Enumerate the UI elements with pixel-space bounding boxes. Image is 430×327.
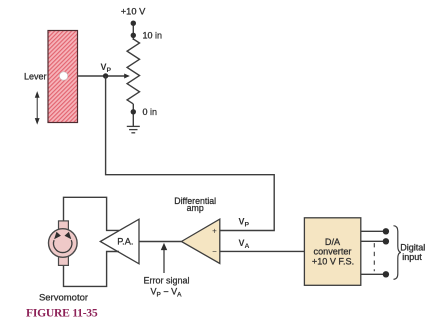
lever (hatched bar) [48,31,78,123]
svg-text:+10 V: +10 V [121,6,146,16]
wire digital input bit n [361,273,386,275]
amplifier P.A. [100,219,139,264]
svg-text:Servomotor: Servomotor [39,293,88,304]
svg-text:Lever: Lever [24,71,47,81]
svg-text:0 in: 0 in [143,107,158,117]
svg-text:VP: VP [101,62,112,74]
rotation arrowhead right [65,232,72,240]
svg-text:+10 V F.S.: +10 V F.S. [312,256,354,266]
wire digital input bit 1 [361,230,386,232]
svg-text:VA: VA [239,238,250,250]
rotation arrowhead left [54,232,61,240]
servomotor rotation arc [54,240,72,252]
potentiometer resistor body [127,39,139,104]
wire error signal: diff amp output to P.A. [139,241,181,243]
wire resistor bottom to ground [132,104,134,126]
node bit 2 [383,238,389,244]
ground [127,126,140,132]
node +10V terminal [131,21,136,26]
brace digital input [394,226,401,280]
node bit 1 [383,228,389,234]
svg-text:converter: converter [314,246,352,256]
wire +10V to potentiometer top [132,23,134,40]
D/A converter box [304,218,360,285]
svg-text:VP − VA: VP − VA [151,286,183,298]
node 0 in end [131,109,136,114]
wire motor top to P.A. upper edge [64,197,120,230]
wiper arrowhead [124,74,130,79]
svg-text:Error signal: Error signal [143,275,189,285]
svg-text:Digital: Digital [400,242,425,252]
svg-text:FIGURE 11-35: FIGURE 11-35 [26,307,98,320]
svg-text:+: + [212,226,217,235]
wire motor bottom to P.A. lower edge [64,252,120,287]
ellipsis dashed line (omitted bits) [373,243,375,271]
svg-text:10 in: 10 in [143,30,163,40]
lever motion double arrow [36,93,39,124]
wire VP junction to diff amp + input [106,76,275,231]
servomotor body [49,229,78,258]
node bit n [383,271,389,277]
svg-text:input: input [402,252,422,262]
wire VA: D/A to diff amp − input [220,250,305,252]
lever pivot hole [59,72,67,80]
svg-text:amp: amp [187,203,204,213]
op-amp differential amp [181,219,219,263]
svg-text:−: − [212,247,217,256]
svg-text:VP: VP [239,216,250,228]
node VP junction [103,73,108,78]
servomotor top cap [59,221,69,231]
svg-text:P.A.: P.A. [117,237,133,247]
wire digital input bit 2 [361,240,386,242]
wire lever to wiper arrow [78,75,125,77]
error signal pointer arrow [162,244,167,273]
servomotor bottom cap [59,256,69,266]
node 10 in end [131,33,136,38]
